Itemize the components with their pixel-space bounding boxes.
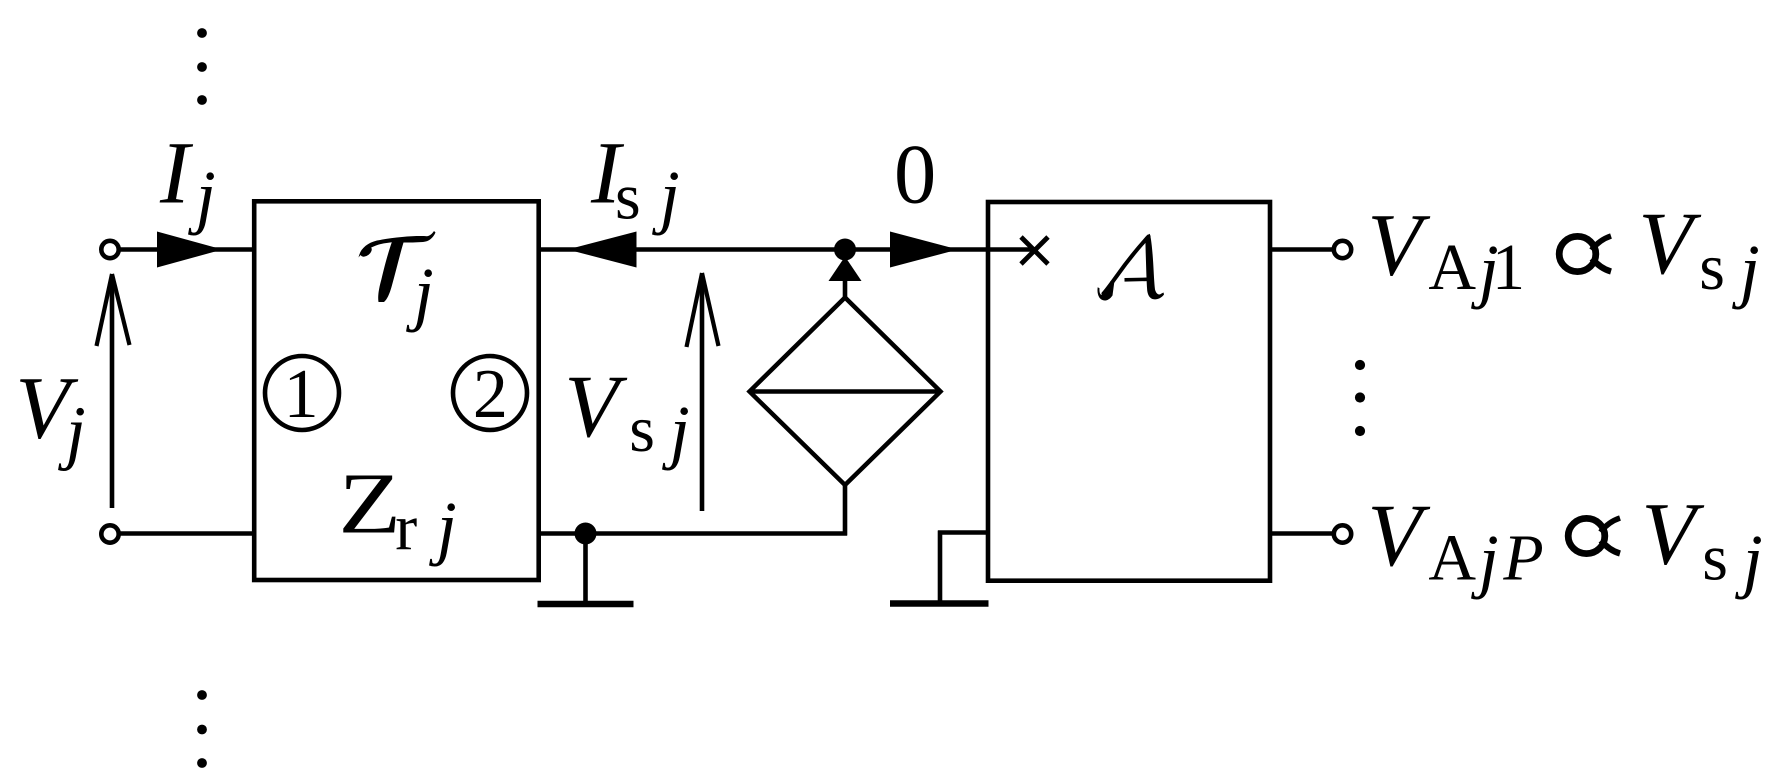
label Ij bbox=[159, 125, 216, 237]
svg-text:j: j bbox=[662, 391, 690, 471]
stub from arrowhead to diamond bbox=[843, 278, 848, 298]
diamond midline bbox=[750, 389, 941, 394]
label Isj bbox=[590, 125, 680, 237]
controlled source arrowhead into node bbox=[829, 257, 862, 282]
svg-text:j: j bbox=[188, 156, 216, 236]
svg-text:I: I bbox=[159, 125, 194, 223]
amplifier box A bbox=[988, 202, 1270, 581]
wire: top-left terminal to port 1 of Tj bbox=[119, 247, 254, 252]
label A (calligraphic A) bbox=[1097, 234, 1164, 301]
output wire 1 bbox=[1270, 247, 1334, 252]
wire: Tj port 2 to A box (node 0 rail) bbox=[539, 247, 1035, 252]
output wire P bbox=[1270, 531, 1334, 536]
ellipsis dots bottom left bbox=[197, 690, 207, 768]
label Tj (calligraphic T) bbox=[358, 231, 435, 333]
svg-text:V: V bbox=[1367, 197, 1430, 295]
svg-text:1: 1 bbox=[1492, 231, 1525, 304]
label VAj1 proportional Vsj bbox=[1367, 195, 1759, 310]
port marker circled 1 bbox=[265, 356, 339, 430]
svg-text:j: j bbox=[406, 253, 434, 333]
svg-text:P: P bbox=[1502, 522, 1543, 595]
svg-text:s: s bbox=[615, 161, 641, 234]
terminal Vj- (bottom-left open circle) bbox=[101, 525, 118, 542]
port marker circled 2 bbox=[453, 356, 527, 430]
label VAjP proportional Vsj bbox=[1367, 486, 1762, 601]
svg-text:Z: Z bbox=[338, 455, 401, 552]
svg-text:j: j bbox=[1732, 230, 1760, 310]
svg-text:r: r bbox=[395, 492, 417, 565]
ellipsis dots right (between outputs) bbox=[1355, 360, 1365, 436]
label Vj bbox=[15, 360, 85, 472]
stub from diamond bottom to bottom rail bbox=[843, 485, 848, 536]
svg-text:s: s bbox=[629, 393, 655, 466]
junction node on bottom rail bbox=[575, 523, 597, 545]
svg-text:A: A bbox=[1428, 231, 1476, 304]
svg-text:V: V bbox=[1641, 486, 1704, 584]
ellipsis dots top left bbox=[197, 28, 207, 105]
junction node on rail bbox=[834, 239, 856, 261]
current arrow 0 (filled, pointing right) bbox=[890, 232, 958, 268]
svg-text:V: V bbox=[1367, 487, 1430, 585]
svg-text:s: s bbox=[1699, 231, 1725, 304]
input cross mark x bbox=[1021, 237, 1048, 264]
wire: bottom-left terminal to Tj bottom port bbox=[119, 531, 254, 536]
svg-text:V: V bbox=[564, 358, 627, 456]
ground at A box reference pin bbox=[890, 531, 989, 604]
voltage arrow Vsj (open head, pointing up) bbox=[687, 273, 719, 511]
bottom rail: Tj port 2' to source bbox=[539, 531, 847, 536]
current arrow Isj (filled, pointing left) bbox=[568, 232, 637, 268]
two-port box Tj bbox=[254, 201, 539, 580]
label Zrj bbox=[338, 455, 456, 567]
output terminal P bbox=[1334, 525, 1351, 542]
svg-text:s: s bbox=[1702, 522, 1728, 595]
svg-text:V: V bbox=[1638, 195, 1701, 293]
svg-text:1: 1 bbox=[284, 356, 319, 433]
svg-text:j: j bbox=[429, 487, 457, 567]
ground at bottom rail bbox=[538, 534, 634, 605]
svg-text:0: 0 bbox=[894, 129, 936, 222]
svg-text:j: j bbox=[1735, 520, 1763, 600]
voltage arrow Vj (open head, pointing up) bbox=[97, 274, 130, 508]
svg-text:j: j bbox=[652, 156, 680, 236]
label Vsj bbox=[564, 358, 689, 471]
controlled current source diamond bbox=[750, 298, 941, 486]
svg-text:A: A bbox=[1428, 522, 1476, 595]
current arrow Ij (filled) bbox=[157, 232, 223, 268]
output terminal 1 bbox=[1334, 241, 1351, 258]
svg-text:2: 2 bbox=[473, 356, 508, 433]
terminal Vj+ (top-left open circle) bbox=[101, 241, 118, 258]
